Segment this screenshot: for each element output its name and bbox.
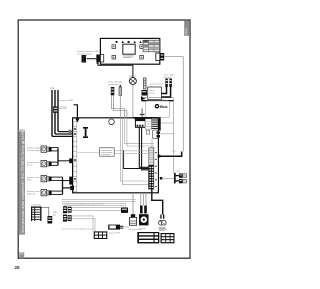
svg-text:отопления: отопления <box>108 84 119 86</box>
svg-text:клеммы: клеммы <box>134 229 142 231</box>
svg-text:температуры: температуры <box>27 150 41 152</box>
svg-text:реле насоса: реле насоса <box>151 84 164 86</box>
svg-text:обратки: обратки <box>27 194 36 196</box>
svg-text:кабель питания горелки котла: кабель питания горелки котла <box>62 229 93 231</box>
svg-text:к контроллеру: к контроллеру <box>77 53 92 55</box>
svg-text:горелка: горелка <box>159 229 168 231</box>
svg-text:ГВС: ГВС <box>27 180 32 182</box>
svg-text:AC: AC <box>53 214 56 217</box>
svg-text:Etna: Etna <box>160 105 167 109</box>
svg-text:горелка: горелка <box>157 99 166 101</box>
svg-text:сетевой: сетевой <box>59 106 68 109</box>
svg-text:RVD: RVD <box>185 27 189 34</box>
svg-text:разъем ГВ: разъем ГВ <box>109 232 120 234</box>
svg-text:клеммник: клеммник <box>31 204 41 206</box>
svg-text:Электрическая схема соединений: Электрическая схема соединений с RVD ТЕП… <box>21 128 25 233</box>
svg-text:L N: L N <box>51 87 55 90</box>
svg-text:28: 28 <box>15 265 21 270</box>
svg-text:котла: котла <box>27 165 33 167</box>
svg-text:котла: котла <box>149 93 155 95</box>
svg-text:TTO: TTO <box>176 171 181 173</box>
svg-text:питание 220В: питание 220В <box>59 100 74 102</box>
